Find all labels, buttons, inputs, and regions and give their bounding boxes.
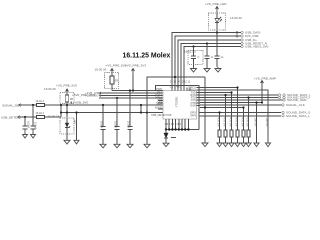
svg-text:16 15 14 13 12 11: 16 15 14 13 12 11 bbox=[170, 80, 191, 84]
svg-text:100nF: 100nF bbox=[127, 121, 131, 129]
svg-text:47R 5%: 47R 5% bbox=[228, 118, 232, 128]
svg-text:16.00.24: 16.00.24 bbox=[48, 115, 60, 119]
svg-text:16.00.26: 16.00.26 bbox=[95, 67, 107, 71]
junction dots bottom bus bbox=[165, 128, 190, 130]
junction node bbox=[60, 111, 62, 113]
ground cap C10 bbox=[191, 67, 197, 72]
wire right pin5 SOUND_DATA_R bbox=[200, 97, 278, 99]
wire row1 USB bus bbox=[172, 33, 241, 37]
net label +VS_PRE_5V0 mid bbox=[106, 64, 127, 73]
terminal SOUND_DATA_T bbox=[282, 114, 310, 118]
wire right pin8 SIGNAL bbox=[200, 104, 282, 106]
terminal SOUND_DATA_S bbox=[282, 111, 310, 115]
IC top pin stubs bbox=[172, 86, 190, 91]
LED D1 dashed box bbox=[209, 13, 226, 30]
vertical bus to IC top pins bbox=[172, 36, 184, 86]
IC left pin stubs bbox=[158, 101, 163, 109]
ground zener bbox=[64, 140, 70, 144]
IC left pin names bbox=[151, 87, 172, 117]
svg-text:7 8 9 0 1 2 3 4: 7 8 9 0 1 2 3 4 bbox=[165, 122, 182, 126]
svg-text:TEST: TEST bbox=[156, 102, 163, 106]
wire IC left pin2 bbox=[101, 92, 163, 94]
wire +VS rail y77 bbox=[148, 76, 205, 78]
svg-text:47R 5%: 47R 5% bbox=[245, 118, 249, 128]
wire y85 to right pins bbox=[156, 86, 200, 130]
wire row3 bbox=[178, 40, 241, 44]
net label +VS_PRE_3V3 bbox=[125, 64, 146, 75]
terminal SOUND_DATA_L bbox=[278, 93, 311, 97]
wire riser x148 bbox=[147, 77, 148, 113]
resistor R13 bbox=[234, 86, 240, 146]
svg-text:+VS_PRE_5V0: +VS_PRE_5V0 bbox=[106, 64, 127, 68]
wire node riser bbox=[60, 105, 62, 117]
junction row5 cap bbox=[192, 45, 194, 47]
svg-text:16.11.25 Molex: 16.11.25 Molex bbox=[123, 53, 171, 60]
wire pulldown x76.5 bbox=[73, 113, 77, 141]
wire pulldown x256 bbox=[253, 101, 259, 146]
net label +VS_PRE_LED bbox=[205, 2, 227, 13]
resistor R14 bbox=[240, 106, 246, 146]
resistor R12 bbox=[228, 91, 234, 146]
wire right pin7 bbox=[200, 102, 262, 104]
junction +VS_PRE_AMP bbox=[261, 101, 263, 103]
svg-text:47R 5%: 47R 5% bbox=[222, 118, 226, 128]
wire right pin9 GND bbox=[200, 107, 244, 109]
svg-text:+VS_PRE_5V0: +VS_PRE_5V0 bbox=[56, 83, 77, 87]
junction x147 bbox=[146, 111, 148, 113]
capacitor C10 dashed box bbox=[188, 51, 203, 65]
terminal SOUND_GND bbox=[283, 98, 307, 102]
ground cap C11 bbox=[204, 67, 210, 72]
net label +USB_5V0 bbox=[71, 101, 89, 105]
svg-text:0R: 0R bbox=[115, 79, 118, 83]
svg-text:C: C bbox=[198, 55, 200, 59]
svg-text:SOUND_DATA_L: SOUND_DATA_L bbox=[286, 114, 310, 118]
svg-text:+VS_PRE_LED: +VS_PRE_LED bbox=[205, 2, 227, 6]
diode D3 to ground bbox=[164, 130, 176, 144]
svg-text:DSR: DSR bbox=[190, 103, 196, 107]
ground C1 bbox=[23, 129, 28, 138]
wire IC left pin4 bbox=[99, 97, 163, 99]
wire right pin3 bbox=[200, 92, 232, 94]
svg-text:16.02.2: 16.02.2 bbox=[36, 111, 45, 115]
resistor R3 bbox=[110, 73, 118, 91]
wire gnd x147 bbox=[146, 113, 148, 145]
svg-text:+5V0_PRE_USB: +5V0_PRE_USB bbox=[72, 93, 95, 97]
resistor R10 bbox=[216, 111, 222, 146]
svg-text:16.00.25: 16.00.25 bbox=[44, 87, 56, 91]
ground x76.5 bbox=[74, 140, 79, 144]
resistor R1 bbox=[36, 99, 45, 107]
capacitor C3 bbox=[100, 105, 106, 144]
resistor R3 dashed box bbox=[105, 73, 119, 89]
resistor R4 bbox=[65, 90, 73, 119]
wire right pin4 SOUND_DATA_L bbox=[200, 94, 278, 96]
net label +VS_PRE_AMP bbox=[254, 77, 276, 103]
wire row2 bbox=[175, 36, 241, 40]
junction cap x117 bbox=[116, 97, 118, 99]
ground x205 bbox=[202, 143, 208, 147]
wire R2 to node bbox=[45, 116, 61, 118]
resistor R2 bbox=[36, 111, 45, 119]
resistor R11 bbox=[222, 94, 228, 147]
terminal SOUND_DATA_R bbox=[278, 96, 312, 100]
net label +1V8 stub pin2 bbox=[85, 91, 101, 95]
svg-text:USB_DETECTOR: USB_DETECTOR bbox=[151, 113, 172, 117]
wire row5 bbox=[184, 47, 241, 51]
wire IC left pin1 bbox=[112, 90, 163, 92]
LED D1 bbox=[215, 13, 222, 30]
terminal pins USB right bbox=[236, 31, 269, 49]
junction R4 node bbox=[66, 111, 68, 113]
capacitor C1 bbox=[23, 117, 31, 129]
wire right pin2 bbox=[200, 90, 268, 143]
svg-text:SIGNAL_CLK: SIGNAL_CLK bbox=[286, 103, 305, 107]
svg-text:GPI4: GPI4 bbox=[190, 114, 196, 118]
resistor R15 bbox=[245, 96, 251, 146]
svg-text:1 2 3 4 5: 1 2 3 4 5 bbox=[170, 85, 180, 89]
capacitor C11 bbox=[205, 44, 214, 68]
ground C2 bbox=[31, 129, 36, 138]
junction row4 cap bbox=[206, 42, 208, 44]
wire +3V3 vertical bbox=[132, 74, 134, 91]
svg-text:16.00.26: 16.00.26 bbox=[230, 16, 242, 20]
IC bottom pin stubs bbox=[166, 119, 188, 127]
IC right pin names bbox=[188, 85, 196, 117]
ground cap C12 bbox=[215, 67, 221, 72]
ground x268 col bbox=[265, 118, 271, 147]
ground D3 bbox=[163, 143, 169, 146]
wire bridge x141 bbox=[140, 104, 142, 114]
svg-text:100nF: 100nF bbox=[34, 122, 38, 130]
svg-text:4K7: 4K7 bbox=[73, 120, 77, 125]
junction LED/row1 bbox=[216, 31, 218, 33]
wire IC left pin3 bbox=[85, 94, 163, 98]
capacitor C10 bbox=[191, 47, 200, 68]
wire bottom right SOUND_DATA_S bbox=[199, 112, 281, 114]
svg-text:100nF: 100nF bbox=[114, 121, 118, 129]
svg-text:SOUND_GND: SOUND_GND bbox=[287, 98, 307, 102]
svg-text:+VS_PRE_AMP: +VS_PRE_AMP bbox=[254, 77, 276, 81]
svg-text:SIGNAL_DET: SIGNAL_DET bbox=[2, 103, 21, 107]
svg-text:16.02.20: 16.02.20 bbox=[184, 49, 196, 53]
svg-text:+VS_PRE_3V3: +VS_PRE_3V3 bbox=[125, 64, 146, 68]
bottom pin risers to bus bbox=[166, 127, 188, 130]
svg-text:100nF: 100nF bbox=[26, 121, 30, 129]
capacitor C12 bbox=[215, 33, 224, 68]
junction C3 bbox=[102, 104, 104, 106]
svg-text:USB_VBUS_5V0: USB_VBUS_5V0 bbox=[245, 45, 269, 49]
junction 3V3 bbox=[132, 89, 134, 91]
svg-text:+USB_5V0: +USB_5V0 bbox=[73, 101, 88, 105]
junction x76.5 bbox=[75, 111, 77, 113]
net label USB_DETECT bbox=[1, 115, 21, 119]
junction cap x33 bbox=[32, 104, 34, 106]
terminal SIGNAL_DA bbox=[282, 103, 305, 107]
wire USB_DETECT bbox=[20, 116, 36, 118]
junction C5 bbox=[129, 89, 131, 91]
svg-text:47R 5%: 47R 5% bbox=[240, 118, 244, 128]
capacitor C5 bbox=[127, 91, 133, 145]
net label SIGNAL_DET bbox=[2, 103, 21, 107]
junction cap x25 bbox=[24, 116, 26, 118]
wire IC left pin5 (node to IC) bbox=[61, 112, 163, 114]
junction R4 wire1 bbox=[66, 104, 68, 106]
ground C3 bbox=[100, 144, 106, 148]
capacitor C4 bbox=[114, 98, 120, 144]
IC U1 body bbox=[163, 91, 197, 120]
zener D2 bbox=[65, 118, 70, 140]
wire bottom right SOUND_DATA_T bbox=[199, 115, 281, 117]
wire row4 bbox=[181, 44, 241, 48]
svg-text:100nF: 100nF bbox=[100, 121, 104, 129]
resistor R4 dashed box bbox=[60, 93, 74, 104]
wire bottom bus bbox=[166, 129, 199, 131]
junction node top bbox=[60, 104, 62, 106]
net label +VS_PRE_5V0 left bbox=[56, 83, 77, 91]
svg-text:47R 5%: 47R 5% bbox=[234, 118, 238, 128]
wire R1 to node bbox=[45, 104, 163, 106]
junction rail x175 bbox=[174, 76, 176, 78]
wire SIGNAL_DET bbox=[21, 104, 36, 106]
wire right pin6 SOUND_GND bbox=[200, 99, 283, 101]
junction x205 gnd pin bbox=[204, 106, 206, 108]
wire LED to bus row1 bbox=[216, 30, 218, 33]
svg-text:47R 5%: 47R 5% bbox=[216, 118, 220, 128]
wire right pin1 bbox=[200, 87, 238, 89]
capacitor C2 bbox=[31, 105, 38, 130]
ground x147 bbox=[144, 144, 150, 148]
IC right pin stubs bbox=[197, 88, 201, 106]
zener D2 dashed box bbox=[60, 118, 74, 134]
svg-text:16.02.2: 16.02.2 bbox=[36, 99, 45, 103]
ground C5 bbox=[127, 144, 133, 148]
wire ground drop x205 bbox=[204, 77, 206, 143]
ground C4 bbox=[114, 144, 120, 148]
svg-text:FT232RL: FT232RL bbox=[175, 96, 179, 107]
svg-text:10K 5%: 10K 5% bbox=[265, 118, 269, 128]
